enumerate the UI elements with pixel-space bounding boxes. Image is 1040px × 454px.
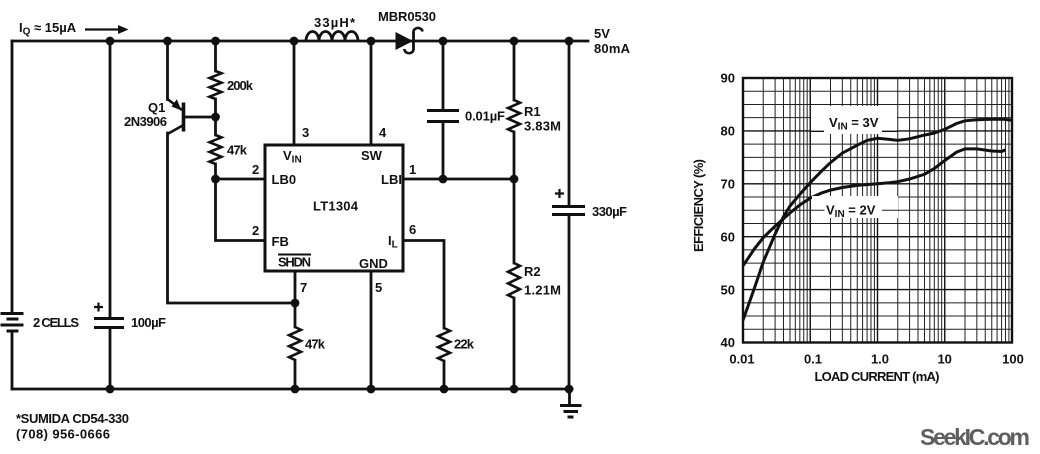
svg-text:LOAD CURRENT (mA): LOAD CURRENT (mA) xyxy=(815,369,940,384)
junction top rail pin3 xyxy=(290,37,299,46)
wire C2 branch bottom xyxy=(442,122,445,179)
svg-text:1: 1 xyxy=(409,162,416,177)
junction top rail R1 xyxy=(510,37,519,46)
wire pin 6 IL to 22k xyxy=(403,241,444,390)
junction top rail C3 xyxy=(565,37,574,46)
svg-text:SHDN: SHDN xyxy=(278,255,311,270)
resistor 200k xyxy=(210,71,222,99)
svg-text:*SUMIDA CD54-330: *SUMIDA CD54-330 xyxy=(16,411,129,426)
svg-text:2 CELLS: 2 CELLS xyxy=(33,315,79,330)
svg-text:SeekIC.com: SeekIC.com xyxy=(920,424,1030,450)
junction pin7 node xyxy=(291,299,300,308)
svg-text:LBI: LBI xyxy=(381,172,402,187)
svg-text:Q1: Q1 xyxy=(148,100,165,115)
transistor Q1 2N3906 xyxy=(124,99,184,134)
svg-text:EFFICIENCY (%): EFFICIENCY (%) xyxy=(691,159,706,252)
junction top rail pin4 xyxy=(367,37,376,46)
curve VIN=3V xyxy=(743,119,1012,320)
junction LBO/FB node xyxy=(211,175,220,184)
wire LBI pin 1 run xyxy=(403,178,515,181)
wire pin 7 SHDN to 47k xyxy=(294,271,297,389)
resistor 47k upper xyxy=(210,135,222,164)
wire Q1 emitter riser xyxy=(166,41,169,100)
resistor 47k lower xyxy=(289,327,301,360)
junction top rail C2 xyxy=(439,37,448,46)
chart major gridlines xyxy=(743,78,1012,343)
junction top rail Q1 emitter xyxy=(163,37,172,46)
svg-text:5V: 5V xyxy=(594,26,610,41)
svg-text:70: 70 xyxy=(721,177,735,192)
svg-text:2N3906: 2N3906 xyxy=(124,114,167,129)
resistor 22k xyxy=(438,328,450,361)
svg-text:VIN = 2V: VIN = 2V xyxy=(826,203,876,221)
svg-text:MBR0530: MBR0530 xyxy=(378,9,436,24)
wire LBO pin 2 xyxy=(216,178,266,181)
curve VIN=2V xyxy=(743,149,1006,266)
junction LBI R1 R2 xyxy=(510,175,519,184)
svg-text:80mA: 80mA xyxy=(594,41,631,56)
svg-text:LB0: LB0 xyxy=(272,172,297,187)
svg-text:GND: GND xyxy=(359,256,388,271)
svg-text:VIN = 3V: VIN = 3V xyxy=(829,115,879,133)
wire bottom ground rail xyxy=(12,388,572,391)
wire Q1 collector run to pin 7 node xyxy=(168,133,296,303)
wire pin 3 VIN riser xyxy=(293,41,296,145)
junction bottom rail 22k xyxy=(440,385,449,394)
junction top rail 200k xyxy=(211,37,220,46)
svg-text:1.0: 1.0 xyxy=(871,352,889,367)
diode D1 MBR0530 xyxy=(378,9,436,53)
capacitor C2 0.01uF xyxy=(427,109,505,124)
svg-text:4: 4 xyxy=(379,125,387,140)
wire C3 branch xyxy=(568,41,571,389)
svg-text:5: 5 xyxy=(375,280,382,295)
wire FB pin 2 xyxy=(216,179,266,241)
junction base node xyxy=(211,113,220,122)
wire left battery riser xyxy=(11,41,14,312)
svg-text:FB: FB xyxy=(272,234,289,249)
svg-text:200k: 200k xyxy=(227,78,254,93)
junction LBI C2 xyxy=(439,175,448,184)
wire 200k top xyxy=(214,41,217,71)
junction bottom rail pin5 xyxy=(367,385,376,394)
battery BT1 2 CELLS xyxy=(1,314,24,332)
svg-text:R2: R2 xyxy=(524,264,541,279)
svg-text:R1: R1 xyxy=(524,104,541,119)
junction top rail C1 xyxy=(106,37,115,46)
svg-text:2: 2 xyxy=(252,223,259,238)
svg-text:3: 3 xyxy=(302,125,309,140)
label VIN=3V xyxy=(811,106,897,134)
svg-text:47k: 47k xyxy=(305,337,326,352)
svg-text:LT1304: LT1304 xyxy=(313,199,359,214)
wire R2 branch xyxy=(513,179,516,389)
svg-text:50: 50 xyxy=(721,282,735,297)
svg-text:33µH*: 33µH* xyxy=(314,15,356,30)
resistor R2 1.21M xyxy=(508,263,520,298)
svg-text:100µF: 100µF xyxy=(131,315,166,330)
svg-text:90: 90 xyxy=(721,71,735,86)
wire battery to bottom rail xyxy=(11,331,14,389)
wire pin 4 SW riser xyxy=(370,41,373,145)
wire 47k to LBO node xyxy=(214,164,217,179)
wire C1 branch xyxy=(109,41,112,389)
svg-text:22k: 22k xyxy=(454,337,475,352)
junction bottom rail ground xyxy=(565,385,574,394)
svg-text:2: 2 xyxy=(252,162,259,177)
svg-text:3.83M: 3.83M xyxy=(524,119,561,134)
svg-text:SW: SW xyxy=(361,148,383,163)
wire 200k bottom / 47k top xyxy=(214,99,217,135)
inductor L1 33uH coil xyxy=(306,32,358,41)
chart frame xyxy=(743,78,1012,343)
wire C2 branch top xyxy=(442,41,445,110)
svg-text:330µF: 330µF xyxy=(592,204,627,219)
svg-text:1.21M: 1.21M xyxy=(524,283,561,298)
junction bottom rail R2 xyxy=(510,385,519,394)
svg-text:6: 6 xyxy=(409,222,416,237)
wire top supply rail xyxy=(12,40,588,43)
svg-text:(708) 956-0666: (708) 956-0666 xyxy=(16,427,110,442)
svg-text:47k: 47k xyxy=(227,143,248,158)
IC U1 LT1304 xyxy=(265,145,403,271)
svg-text:0.01µF: 0.01µF xyxy=(465,109,505,124)
svg-text:60: 60 xyxy=(721,229,735,244)
svg-text:7: 7 xyxy=(300,280,307,295)
junction bottom rail 47k xyxy=(291,385,300,394)
svg-text:40: 40 xyxy=(721,335,735,350)
wire pin 5 GND riser xyxy=(370,271,373,389)
chart minor gridlines xyxy=(743,78,1012,343)
wire R1 branch xyxy=(513,41,516,179)
junction bottom rail C1 xyxy=(106,385,115,394)
efficiency chart xyxy=(691,71,1024,384)
svg-text:80: 80 xyxy=(721,124,735,139)
resistor R1 3.83M xyxy=(508,100,520,132)
wire Q1 base to divider node xyxy=(184,116,216,119)
label VIN=2V xyxy=(812,196,898,220)
svg-text:100: 100 xyxy=(1002,352,1024,367)
capacitor C1 100uF xyxy=(94,303,166,331)
svg-text:0.1: 0.1 xyxy=(804,352,822,367)
current arrow xyxy=(85,25,129,34)
capacitor C3 330uF xyxy=(552,189,627,219)
ground symbol xyxy=(560,389,582,417)
svg-text:10: 10 xyxy=(937,352,951,367)
svg-text:0.01: 0.01 xyxy=(729,352,754,367)
